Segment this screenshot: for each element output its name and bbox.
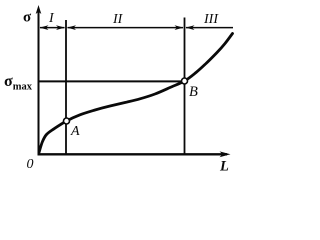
x-axis xyxy=(38,153,228,155)
curve sigma(L) xyxy=(39,34,233,153)
arrowhead II right xyxy=(175,25,184,30)
svg-text:B: B xyxy=(189,84,198,100)
vertical boundary line II/III xyxy=(184,18,186,155)
arrowhead I left xyxy=(40,25,49,30)
arrowhead II left xyxy=(67,25,76,30)
arrowhead I right xyxy=(56,25,65,30)
point A (open circle) xyxy=(64,118,70,124)
svg-text:III: III xyxy=(203,12,219,27)
y-axis arrowhead xyxy=(36,5,42,14)
svg-text:A: A xyxy=(70,124,80,139)
dimension line region III xyxy=(186,27,233,29)
svg-text:σ: σ xyxy=(23,10,32,26)
sigma_max horizontal line to B xyxy=(39,80,185,82)
y-axis xyxy=(38,9,40,155)
x-axis arrowhead xyxy=(220,151,231,157)
svg-text:0: 0 xyxy=(27,157,34,172)
arrowhead III left xyxy=(186,25,195,30)
svg-text:L: L xyxy=(219,159,229,175)
svg-text:II: II xyxy=(112,12,124,27)
vertical boundary line I/II xyxy=(65,20,67,154)
dimension line region I xyxy=(40,27,65,29)
point B (open circle) xyxy=(182,78,188,84)
dimension line region II xyxy=(68,27,184,29)
